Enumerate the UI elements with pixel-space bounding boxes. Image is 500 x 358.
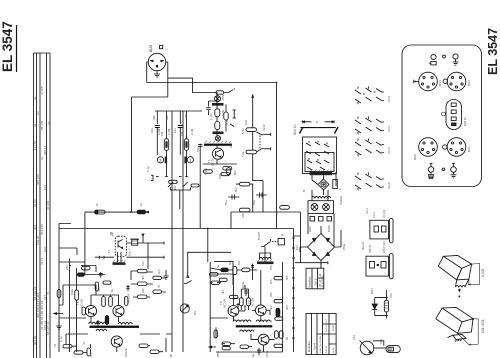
svg-text:AC126: AC126 [127,293,131,303]
ground small left [163,270,168,279]
bias resistors vertical [239,285,250,310]
svg-text:94: 94 [47,121,51,125]
svg-text:Sch8: Sch8 [387,182,391,189]
cap sign [99,272,103,278]
svg-text:8k2: 8k2 [228,260,232,265]
vert 207.8 [207,229,209,263]
wires bottom-left [59,258,172,352]
inline resistor x59 [57,290,61,298]
connector box BU1 [370,210,393,243]
inner sub box [305,153,334,172]
top row parts [221,264,254,275]
right column resistors [137,269,161,298]
svg-text:OC70: OC70 [211,158,215,166]
svg-text:102: 102 [295,245,299,250]
svg-text:50μ: 50μ [252,200,256,205]
svg-text:1.17k: 1.17k [204,168,208,175]
junction dots [130,82,277,230]
vert rails left [59,229,69,353]
svg-text:3: 3 [159,157,162,162]
svg-text:Band/auf: Band/auf [308,276,312,287]
svg-text:8k2: 8k2 [233,170,237,175]
svg-text:250μ: 250μ [342,243,346,250]
svg-text:R31: R31 [244,119,248,125]
svg-text:72: 72 [46,291,50,295]
svg-text:S 103: S 103 [481,268,485,277]
svg-text:Sch 5: Sch 5 [314,278,318,285]
svg-text:Sch2: Sch2 [387,125,391,132]
switch bottom left [184,281,192,284]
barrel capacitor [131,239,139,245]
svg-text:98 106: 98 106 [40,120,44,130]
link y180 [253,180,263,182]
svg-text:305 106: 305 106 [36,174,40,185]
cable bundle [34,53,51,358]
svg-text:2: 2 [316,120,318,124]
svg-text:1k: 1k [139,202,143,206]
bottom-left output stage [54,224,172,357]
mic cap label [150,128,184,136]
cap electrolytic 1 [256,193,267,198]
driver transformer [89,322,140,331]
switch cluster 1 [355,87,391,105]
svg-text:AC128: AC128 [223,298,227,308]
svg-text:308-6 103: 308-6 103 [382,241,386,253]
speaker box lower [436,295,485,345]
cable labels [33,86,51,345]
svg-text:31: 31 [53,343,57,347]
wire y243 [127,234,165,245]
resistor on y210 [95,210,105,214]
volume pot 1 [184,157,193,164]
fuse [373,341,400,353]
svg-text:GR1: GR1 [370,288,374,294]
bridge rectifier [308,226,335,268]
resistors row below [203,170,229,176]
resistor on 277 vert [280,206,290,210]
vert 186.5 [186,111,188,177]
record head bar [204,141,232,146]
svg-text:84: 84 [169,353,173,357]
vert 252.7 lower [252,154,254,181]
arrow left [54,313,63,315]
svg-text:GR2: GR2 [308,226,312,232]
T1 label [207,158,215,166]
svg-text:66 103: 66 103 [46,200,50,210]
svg-text:100k: 100k [221,109,225,116]
resistor rowA2 black [77,273,84,276]
resistor row2 [210,273,239,299]
svg-text:10n: 10n [150,128,154,133]
vert 166.5 [166,111,168,177]
meter circle [180,304,189,313]
box edges [210,262,282,352]
svg-text:5.6k: 5.6k [241,151,245,157]
svg-text:56-50-50-50: 56-50-50-50 [323,274,325,287]
svg-text:93-98: 93-98 [333,325,335,331]
vert 180.3 [179,111,181,155]
svg-text:BU1: BU1 [467,146,471,152]
panel DIN C [413,138,437,160]
svg-text:64: 64 [33,123,37,127]
cap box right of motor [333,180,338,189]
junction ticks row [151,175,188,180]
T7 label [219,298,227,308]
panel bottom circle 2 [451,163,457,178]
svg-text:R: R [280,234,284,236]
relay box R [272,239,285,245]
svg-text:BU/DT: BU/DT [257,231,261,240]
svg-text:306-41: 306-41 [368,244,372,253]
resistor chain 2 [215,117,220,130]
panel DIN A [414,72,442,91]
transistor T1 [212,148,223,159]
cap can box [308,201,334,214]
panel bottom circle 1 [428,163,434,179]
title EL 3547 left [0,21,15,72]
hook contact [257,147,271,152]
cap electrolytic 2 [228,195,239,200]
svg-text:150: 150 [269,265,273,270]
extra wires bottom-center [210,268,274,347]
svg-text:5.6k: 5.6k [241,128,245,134]
svg-text:BU3: BU3 [438,80,442,86]
svg-text:LA1: LA1 [352,335,356,340]
svg-text:EL 3547: EL 3547 [0,21,15,72]
small tick parts x232 [230,110,236,127]
svg-text:C: C [338,188,342,190]
svg-text:4k7: 4k7 [221,289,225,294]
cap on 180.3 [178,126,183,133]
connector square [160,46,163,49]
branch cap x208 [206,101,217,115]
inductor bar 2 [213,132,224,135]
diode network [372,290,388,319]
svg-text:306-41: 306-41 [361,241,365,250]
long vert 252.7 with arrow [252,95,253,128]
bottom parts [214,330,261,355]
transistor T2 [85,305,96,316]
svg-text:306 25: 306 25 [33,335,37,345]
svg-text:39k: 39k [165,115,169,120]
svg-text:306: 306 [285,305,289,310]
inductor bar 1 [212,103,224,106]
svg-text:1k: 1k [275,210,279,214]
svg-text:10n: 10n [173,128,177,133]
wire BU5 bracket [132,62,168,212]
panel DIN D [443,138,471,157]
panel DIN B [443,72,471,91]
switch contact to terminal [257,132,271,136]
small resistors row [169,180,199,187]
svg-text:2.2M: 2.2M [190,128,194,135]
svg-text:BU2 9V: BU2 9V [463,117,467,126]
svg-text:1M: 1M [180,131,184,136]
misc caps [236,289,248,309]
svg-text:2k2: 2k2 [234,187,238,192]
cap on 157.3 [155,126,160,133]
svg-text:47: 47 [82,341,86,345]
svg-text:11-34: 11-34 [333,347,335,353]
svg-text:50μ: 50μ [224,200,228,205]
mechanical link dashed [259,136,261,149]
svg-text:44 21: 44 21 [40,257,44,265]
wire rail y210 left [85,211,149,213]
lamp symbol 2 [215,130,220,141]
svg-text:10k: 10k [173,185,177,190]
switch cluster 2 [355,117,391,135]
T2 label [76,298,84,308]
svg-text:gn: gn [33,96,37,100]
title underline [16,25,18,72]
wire vert 86 [84,212,86,258]
wire rail y212 [231,211,301,213]
resistor vert B [184,139,188,151]
panel small circle 1 [431,54,436,59]
extra wires bottom-left [59,243,166,353]
resistor 5.6k upper [241,128,257,134]
wire mid [59,271,166,318]
resistor 5.6k lower [246,131,257,153]
svg-text:100μ: 100μ [265,350,269,357]
switch transistor Sch7 [111,232,132,256]
svg-text:4.7k: 4.7k [225,119,229,125]
misc long wires [200,145,276,229]
box mid-bottom [214,262,233,285]
svg-text:1k5: 1k5 [157,269,161,274]
vert 300.5 [295,212,328,264]
svg-text:4k7: 4k7 [269,305,273,310]
vert 293.5 ticks [292,229,295,353]
svg-text:47: 47 [269,319,273,323]
wire rail y228 [59,228,294,230]
panel small circle 2 [453,54,458,59]
wire bottom [72,338,166,353]
wire y257 [95,256,164,259]
ground at BU5 [154,71,160,77]
svg-text:47: 47 [157,284,161,288]
resistor chain 1 [215,92,220,117]
speaker box upper [438,255,485,291]
svg-text:1k: 1k [95,202,99,206]
svg-text:Motorkey: Motorkey [307,340,311,352]
svg-text:T7: T7 [107,249,111,253]
relay switch mid [261,239,271,247]
transistor T3 [113,305,124,316]
svg-text:BU4: BU4 [467,80,471,86]
chassis ground bar [257,253,274,264]
volume pot 3 [157,157,167,164]
svg-text:VL1: VL1 [379,339,383,344]
svg-text:33k: 33k [229,143,233,148]
svg-text:305 44: 305 44 [43,145,47,155]
svg-text:39k: 39k [184,113,188,118]
svg-text:150: 150 [141,261,145,266]
socket BU5 [148,53,165,70]
switch contacts row [168,182,190,209]
svg-text:220: 220 [269,292,273,297]
svg-text:K10: K10 [196,147,200,152]
svg-text:M1: M1 [193,311,197,315]
panel dot [443,55,446,58]
svg-text:L6 103: L6 103 [382,210,386,218]
svg-text:84: 84 [285,336,289,340]
right column resistors [274,276,283,347]
extra parts bottom-left [59,248,130,326]
svg-text:100μ: 100μ [70,288,74,295]
svg-text:4-6-1: 4-6-1 [365,207,369,214]
choke coil [260,247,271,259]
transistor T4 [111,336,122,347]
panel top right [402,45,482,187]
svg-text:1S1÷1/51: 1S1÷1/51 [481,319,485,333]
extra wires power [294,172,342,268]
wires bottom-center [210,270,282,352]
svg-text:Sch3: Sch3 [387,147,391,154]
resistor on rail210 [240,208,251,212]
svg-text:108: 108 [43,247,47,252]
svg-text:470: 470 [389,293,393,298]
svg-text:100μ: 100μ [241,281,245,288]
title EL 3547 right [486,28,500,75]
svg-text:101: 101 [43,185,47,190]
svg-text:rd 105: rd 105 [40,86,44,95]
svg-text:1k5: 1k5 [269,279,273,284]
svg-text:Sch1: Sch1 [387,95,391,102]
svg-text:220: 220 [65,265,69,270]
inner box top [155,110,202,112]
svg-text:Sch 10: Sch 10 [293,124,297,135]
svg-text:BU6: BU6 [413,154,417,160]
svg-text:3k9: 3k9 [83,265,87,270]
battery holder [441,100,467,130]
top link x59 [59,224,71,229]
panel gnd 2 [453,59,459,65]
svg-text:4k7: 4k7 [141,275,145,280]
svg-text:BU5: BU5 [149,45,153,52]
wire feed top [85,243,148,295]
secondary coil [312,196,331,198]
svg-text:B30C: B30C [327,225,331,232]
svg-text:M: M [302,189,306,192]
svg-text:39k: 39k [152,115,156,120]
wire power verticals [308,175,334,247]
transformer primary [310,169,333,175]
svg-text:54-97 105-97: 54-97 105-97 [326,318,328,332]
svg-text:Sch 7: Sch 7 [128,248,132,256]
resistor vert left [75,290,79,300]
resistor in box 2 [219,278,227,281]
svg-text:AC125: AC125 [80,298,84,308]
wire vert 231 [230,212,232,229]
wire rail y164 [203,163,237,165]
svg-text:R29: R29 [221,94,225,100]
svg-text:10k: 10k [237,260,241,265]
svg-text:470: 470 [241,213,245,218]
svg-text:220: 220 [141,288,145,293]
svg-text:304: 304 [33,225,37,230]
svg-text:2.2M: 2.2M [157,128,161,135]
switch cluster 3 [355,139,391,157]
svg-text:100k 75m 56-98k: 100k 75m 56-98k [320,335,322,353]
wire corner 187 [187,252,231,277]
switch box [303,137,337,174]
T8 label [247,297,255,307]
resistor on y210 b [110,210,146,236]
transistor T9 [258,334,269,345]
svg-text:T7: T7 [111,232,115,236]
svg-text:Sch 4: Sch 4 [313,343,317,350]
svg-text:Sch9: Sch9 [262,124,266,131]
bottom-center amplifier [209,253,283,355]
svg-text:108 25: 108 25 [36,235,40,245]
svg-text:2x500μ: 2x500μ [339,195,343,205]
svg-text:25V: 25V [216,352,220,357]
resistor y92 [216,89,235,96]
wire vert 277 [276,83,278,213]
vert 157.3 [156,111,158,155]
motor [318,179,329,190]
svg-text:EL 3547: EL 3547 [486,28,500,75]
svg-text:0.1μ: 0.1μ [146,166,150,172]
svg-text:1k: 1k [110,288,114,292]
power section Sch10 [293,124,297,135]
lamp [360,341,387,355]
ground left [56,322,62,329]
T3 label [123,293,131,303]
svg-text:305: 305 [285,275,289,280]
vert 263 [262,181,264,199]
svg-text:3-6-1: 3-6-1 [372,211,376,218]
cap on 200 [198,145,202,147]
svg-text:1.17k: 1.17k [209,113,213,120]
svg-text:304 105: 304 105 [40,224,44,235]
wire branch y78 [168,78,216,92]
BU5 label [149,45,153,52]
resistor mid y184 [236,182,253,186]
left bottom arrow part [209,346,230,350]
svg-text:147-98: 147-98 [326,345,328,353]
resistor rowA [82,266,91,270]
svg-text:1: 1 [189,157,192,162]
svg-text:31 54: 31 54 [33,199,37,207]
small parts x228 [227,168,231,175]
wire rail y84 [147,82,277,84]
value labels texture [53,94,393,357]
mid resistors [95,282,112,325]
vert 172 [171,111,173,352]
terminal row [310,217,332,222]
svg-text:AC128: AC128 [251,297,255,307]
switch cluster 4 [355,173,391,191]
connector box BU2 [366,241,393,279]
svg-text:5μ: 5μ [251,353,255,357]
resistor vert A [164,139,168,151]
svg-text:0.1: 0.1 [89,353,93,357]
panel square [431,62,436,65]
svg-text:11 175: 11 175 [33,141,37,150]
svg-text:21: 21 [40,156,44,160]
lamp symbol 1 [215,96,221,102]
vert 183 [182,111,184,352]
output transformer [233,320,272,332]
table Sch5 [306,268,325,289]
svg-text:2.2M: 2.2M [167,128,171,135]
svg-text:105 31: 105 31 [43,320,47,330]
head bracket [300,120,339,134]
switches inside [306,141,329,170]
svg-text:470: 470 [97,287,101,292]
